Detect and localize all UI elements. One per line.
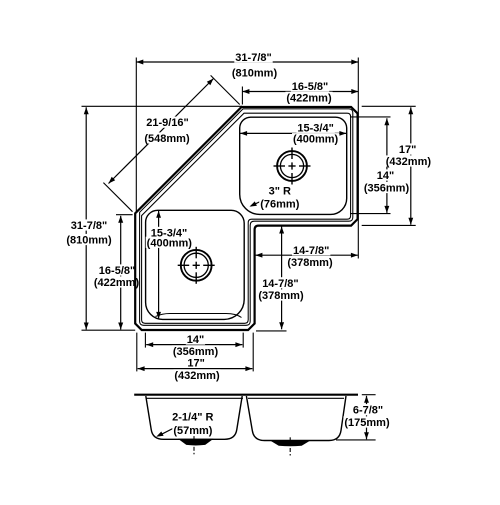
svg-text:(175mm): (175mm) <box>344 417 390 429</box>
svg-text:(810mm): (810mm) <box>66 235 112 247</box>
svg-text:(810mm): (810mm) <box>232 68 278 80</box>
svg-text:(432mm): (432mm) <box>174 370 220 382</box>
svg-text:(422mm): (422mm) <box>94 277 140 289</box>
svg-text:2-1/4" R: 2-1/4" R <box>172 412 213 424</box>
svg-text:16-5/8": 16-5/8" <box>292 81 328 93</box>
svg-text:(432mm): (432mm) <box>386 156 432 168</box>
svg-text:14-7/8": 14-7/8" <box>262 278 298 290</box>
svg-text:21-9/16": 21-9/16" <box>146 117 189 129</box>
svg-text:(548mm): (548mm) <box>144 133 190 145</box>
svg-text:(378mm): (378mm) <box>258 290 304 302</box>
svg-text:(76mm): (76mm) <box>260 199 299 211</box>
svg-text:(57mm): (57mm) <box>173 425 212 437</box>
svg-text:(422mm): (422mm) <box>286 92 332 104</box>
svg-text:14": 14" <box>377 170 394 182</box>
svg-text:(378mm): (378mm) <box>287 257 333 269</box>
svg-text:31-7/8": 31-7/8" <box>235 52 271 64</box>
svg-text:(356mm): (356mm) <box>364 183 410 195</box>
svg-text:14-7/8": 14-7/8" <box>293 245 329 257</box>
svg-text:14": 14" <box>187 334 204 346</box>
svg-text:3" R: 3" R <box>269 186 291 198</box>
svg-text:17": 17" <box>187 357 204 369</box>
svg-text:(400mm): (400mm) <box>293 134 339 146</box>
svg-text:(400mm): (400mm) <box>147 237 193 249</box>
svg-text:17": 17" <box>399 144 416 156</box>
svg-text:31-7/8": 31-7/8" <box>71 220 107 232</box>
svg-text:(356mm): (356mm) <box>173 346 219 358</box>
svg-text:15-3/4": 15-3/4" <box>297 122 333 134</box>
svg-text:16-5/8": 16-5/8" <box>99 265 135 277</box>
svg-text:6-7/8": 6-7/8" <box>353 405 383 417</box>
